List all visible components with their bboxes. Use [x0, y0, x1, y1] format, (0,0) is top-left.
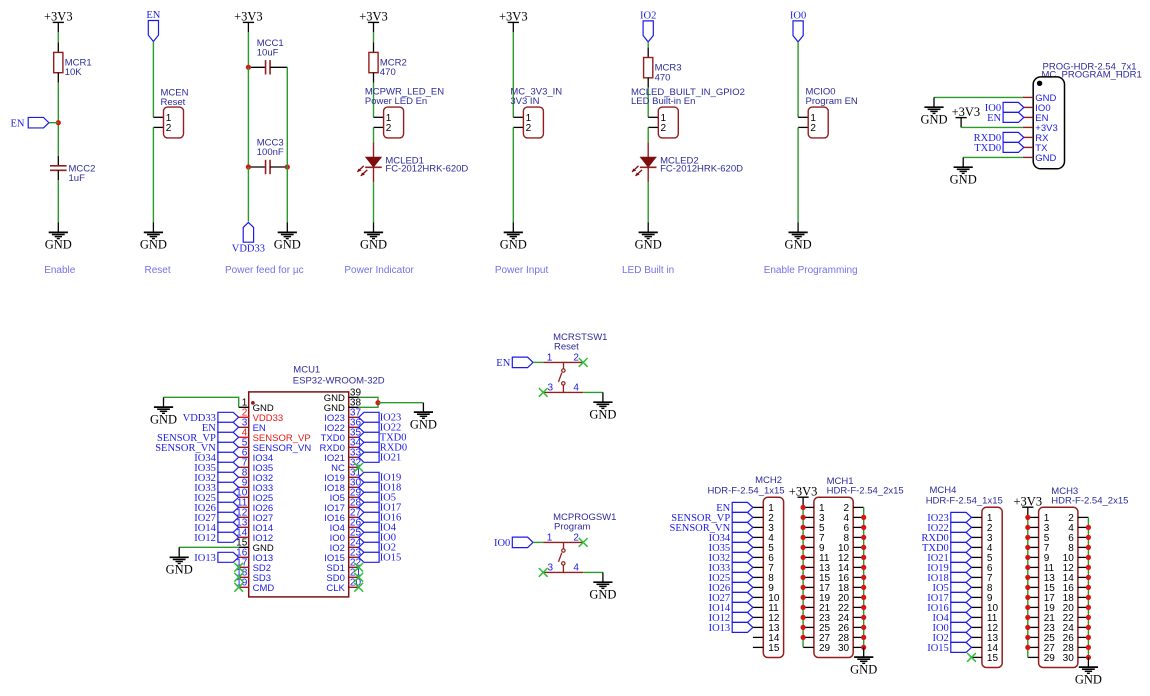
no-connect X pin 3 [539, 388, 548, 397]
svg-text:GND: GND [589, 407, 616, 421]
wire [863, 647, 865, 657]
wire [512, 222, 514, 232]
junction node MCH3 pin 12 [1086, 565, 1091, 570]
net flag IO2 (MCH4 pin 13) [932, 632, 971, 644]
wire [373, 83, 375, 118]
pin GND of MC_PROGRAM_HDR1 [1023, 93, 1057, 104]
resistor MCR1 [54, 43, 92, 83]
pins 15/16 of MCH3 [1028, 583, 1089, 594]
svg-text:Power feed for µc: Power feed for µc [225, 265, 304, 276]
svg-text:GND: GND [850, 662, 877, 676]
no-connect X pin 2 [579, 358, 588, 367]
pin EN of MC_PROGRAM_HDR1 [1023, 113, 1049, 124]
svg-text:GND: GND [920, 112, 947, 126]
wire [647, 127, 649, 142]
junction node MCH3 pin 4 [1086, 525, 1091, 530]
svg-text:2: 2 [386, 123, 392, 134]
wire [178, 547, 180, 557]
wire [512, 32, 514, 117]
junction node GND pins 38/39 [375, 400, 380, 405]
svg-text:2: 2 [526, 123, 532, 134]
connector MCLED_BUILT_IN_GPIO2 [648, 107, 678, 138]
no-connect X pin 19 [234, 583, 243, 592]
pin 14 of MCH4 [972, 643, 999, 654]
pin 1 of MCH2 [753, 503, 774, 514]
svg-text:+3V3: +3V3 [44, 10, 73, 24]
junction node MCH1 pin 5 [801, 525, 806, 530]
net flag IO25 (MCH2 pin 8) [709, 572, 753, 584]
pin 7 of MCH4 [972, 573, 993, 584]
net flag IO2 (MCU1 right) [359, 542, 396, 553]
wire [152, 127, 154, 222]
wire +3V3 bus (MCH3) [1027, 517, 1029, 657]
wire [422, 403, 424, 412]
junction node MCH1 pin 22 [861, 605, 866, 610]
wire [533, 361, 543, 363]
pin 7 of MCH2 [753, 563, 774, 574]
net flag VDD33 [232, 222, 265, 254]
ground (Enable) [45, 232, 72, 251]
pins 19/20 of MCH1 [803, 593, 864, 604]
net flag TXD0 (MCH4 pin 4) [922, 542, 972, 554]
pin 28 IO17 of MCU1 [324, 498, 361, 514]
pin 3 EN of MCU1 [239, 418, 266, 434]
svg-text:10uF: 10uF [257, 48, 279, 59]
net flag IO27 (MCH2 pin 10) [709, 592, 753, 604]
junction node MCH1 pin 23 [801, 615, 806, 620]
pin 2 VDD33 of MCU1 [239, 408, 284, 424]
net flag IO35 (MCU1 pin 7) [194, 462, 238, 474]
svg-text:HDR-F-2.54_1x15: HDR-F-2.54_1x15 [926, 495, 1003, 506]
pin 34 RXD0 of MCU1 [320, 438, 362, 454]
net flag IO14 (MCU1 pin 13) [194, 522, 238, 534]
junction node MCH1 pin 18 [861, 585, 866, 590]
pin 12 of MCH4 [972, 623, 999, 634]
svg-text:Enable Programming: Enable Programming [764, 265, 858, 276]
pin 32 NC of MCU1 [331, 458, 361, 474]
net flag IO15 (MCU1 right) [359, 552, 402, 563]
pins 7/8 of MCH1 [803, 533, 864, 544]
pin 9 of MCH2 [753, 583, 774, 594]
junction node MCH3 pin 16 [1086, 585, 1091, 590]
pin 14 IO12 of MCU1 [236, 528, 273, 544]
no-connect X pin 17 [234, 563, 243, 572]
svg-text:CLK: CLK [326, 583, 345, 594]
pins 27/28 of MCH1 [803, 633, 864, 644]
resistor MCR3 [644, 48, 682, 88]
pin 39 GND of MCU1 [324, 388, 362, 404]
net flag IO32 (MCH2 pin 6) [709, 552, 753, 564]
svg-text:IO13: IO13 [194, 553, 216, 564]
pins 23/24 of MCH1 [803, 613, 864, 624]
wire [286, 167, 288, 222]
junction node MCH3 pin 9 [1025, 555, 1030, 560]
pins 17/18 of MCH1 [803, 583, 864, 594]
svg-text:HDR-F-2.54_2x15: HDR-F-2.54_2x15 [827, 485, 904, 496]
pin 5 of MCH2 [753, 543, 774, 554]
pins 27/28 of MCH3 [1028, 643, 1089, 654]
net flag IO21 (MCU1 right) [359, 452, 402, 463]
pin 13 of MCH2 [753, 623, 780, 634]
pin IO0 of MC_PROGRAM_HDR1 [1023, 103, 1051, 114]
wire [57, 222, 59, 232]
junction node MCH1 pin 4 [861, 515, 866, 520]
net flag IO13 (MCH2 pin 13) [709, 622, 753, 634]
junction node MCH3 pin 22 [1086, 615, 1091, 620]
junction node MCH3 pin 19 [1025, 605, 1030, 610]
pin RX of MC_PROGRAM_HDR1 [1023, 133, 1049, 144]
net flag IO21 (MCH4 pin 5) [927, 552, 971, 564]
ground (MCU pin1) [150, 407, 177, 426]
svg-text:+3V3: +3V3 [952, 105, 981, 119]
ground (Power feed) [274, 232, 301, 251]
pin 37 IO23 of MCU1 [324, 408, 361, 424]
junction node MCH3 pin 13 [1025, 575, 1030, 580]
junction node MCH3 pin 6 [1086, 535, 1091, 540]
wire GND2 to header [963, 156, 1023, 158]
svg-text:Reset: Reset [554, 341, 579, 352]
pin 11 of MCH2 [753, 603, 779, 614]
net flag IO0 (header) [985, 102, 1024, 114]
power +3V3 (MCH3) [1014, 494, 1043, 517]
pins 7/8 of MCH3 [1028, 543, 1089, 554]
pin 4 of MCH4 [972, 543, 993, 554]
wire [152, 42, 154, 118]
pins 29/30 of MCH3 [1028, 653, 1089, 664]
LED MCLED2 [632, 142, 743, 182]
net flag IO19 (MCU1 right) [359, 472, 402, 483]
capacitor MCC1 [248, 38, 287, 75]
net flag EN (MCH2 pin 1) [716, 502, 753, 514]
pin 5 of MCH4 [972, 553, 993, 564]
junction node MCH3 pin 5 [1025, 535, 1030, 540]
svg-text:MCH2: MCH2 [755, 475, 782, 486]
svg-text:EN: EN [496, 358, 510, 369]
switch MCRSTSW1 Reset [543, 332, 607, 394]
net flag EN [11, 117, 49, 129]
pins 29/30 of MCH1 [803, 643, 864, 654]
svg-text:+3V3: +3V3 [499, 10, 528, 24]
net flag IO22 (MCH4 pin 2) [927, 522, 971, 534]
pins 3/4 of MCH1 [803, 513, 864, 524]
net flag VDD33 (MCU1 pin 2) [183, 412, 239, 424]
pin 3 of MCH4 [972, 533, 993, 544]
junction node MCH3 pin 20 [1086, 605, 1091, 610]
junction node MCH1 pin 10 [861, 545, 866, 550]
pin 8 of MCH2 [753, 573, 774, 584]
svg-text:30: 30 [1063, 653, 1075, 664]
junction node MCH3 pin 15 [1025, 585, 1030, 590]
svg-text:GND: GND [589, 587, 616, 601]
pin 25 IO0 of MCU1 [330, 528, 362, 544]
svg-text:Program EN: Program EN [806, 96, 858, 107]
net flag IO0 (switch) [494, 537, 533, 549]
junction node MCH3 pin 26 [1086, 635, 1091, 640]
net flag IO12 (MCH2 pin 12) [709, 612, 753, 624]
svg-text:1uF: 1uF [69, 173, 86, 184]
junction node MCH1 pin 13 [801, 565, 806, 570]
svg-text:3: 3 [548, 383, 554, 394]
net flag IO2 [640, 11, 656, 42]
net flag IO14 (MCH2 pin 11) [709, 602, 753, 614]
wire [647, 42, 649, 48]
wire to GND right [378, 402, 423, 404]
pin 33 IO21 of MCU1 [324, 448, 361, 464]
svg-text:Power LED En: Power LED En [365, 96, 427, 107]
junction node MCH3 pin 24 [1086, 625, 1091, 630]
net flag IO34 (MCH2 pin 4) [709, 532, 753, 544]
svg-text:Reset: Reset [161, 97, 186, 108]
junction node MCH1 pin 3 [801, 515, 806, 520]
connector MC_PROGRAM_HDR1 [1033, 61, 1142, 168]
svg-text:1: 1 [547, 533, 553, 544]
junction node MCH3 pin 1 [1025, 515, 1030, 520]
pins 5/6 of MCH3 [1028, 533, 1089, 544]
svg-text:GND: GND [360, 238, 387, 252]
no-connect X pin 2 [579, 538, 588, 547]
wire [286, 222, 288, 232]
wire [373, 127, 375, 142]
wire [49, 122, 58, 124]
pin 18 SD3 of MCU1 [236, 568, 271, 584]
svg-text:ESP32-WROOM-32D: ESP32-WROOM-32D [293, 376, 385, 387]
net flag RXD0 (MCH4 pin 3) [921, 532, 971, 544]
net flag IO33 (MCH2 pin 7) [709, 562, 753, 574]
LED MCLED1 [357, 142, 468, 182]
pin 22 SD1 of MCU1 [326, 558, 361, 574]
svg-text:Power Input: Power Input [495, 265, 549, 276]
pin 10 of MCH2 [753, 593, 780, 604]
pin 5 SENSOR_VN of MCU1 [239, 438, 312, 454]
net flag IO22 (MCU1 right) [359, 422, 402, 433]
svg-text:VDD33: VDD33 [232, 244, 265, 255]
net flag SENSOR_VN (MCH2 pin 3) [670, 522, 753, 534]
pin 26 IO4 of MCU1 [330, 518, 362, 534]
wire [962, 157, 964, 167]
ground (MCH1) [850, 657, 877, 676]
ground (MCU pin15) [166, 557, 193, 576]
pins 23/24 of MCH3 [1028, 623, 1089, 634]
wire GND to header [934, 96, 1023, 98]
svg-text:1: 1 [547, 353, 553, 364]
wire +3V3 to header [961, 126, 1023, 128]
svg-text:EN: EN [146, 10, 160, 21]
pin 29 IO5 of MCU1 [330, 488, 362, 504]
pin 27 IO16 of MCU1 [324, 508, 361, 524]
svg-text:+3V3: +3V3 [359, 10, 388, 24]
net flag IO4 (MCH4 pin 11) [932, 612, 971, 624]
svg-text:IO2: IO2 [640, 11, 656, 22]
net flag IO34 (MCU1 pin 6) [194, 452, 238, 464]
pin 14 of MCH2 [753, 633, 780, 644]
wire [647, 182, 649, 222]
net flag EN (Reset) [146, 10, 160, 41]
junction node MCH3 pin 7 [1025, 545, 1030, 550]
pins 13/14 of MCH3 [1028, 573, 1089, 584]
pin GND of MC_PROGRAM_HDR1 [1023, 153, 1057, 164]
pins 1/2 of MCH3 [1028, 513, 1089, 524]
pin 16 IO13 of MCU1 [236, 548, 273, 564]
junction node MCH1 pin 16 [861, 575, 866, 580]
net flag IO0 (MCU1 right) [359, 532, 396, 543]
pins 25/26 of MCH3 [1028, 633, 1089, 644]
power +3V3 (header) [952, 105, 981, 128]
net flag IO16 (MCH4 pin 10) [927, 602, 971, 614]
junction node MCH1 pin 30 [861, 645, 866, 650]
wire [57, 83, 59, 156]
pin 9 of MCH4 [972, 593, 993, 604]
junction node MCH1 pin 26 [861, 625, 866, 630]
capacitor MCC2 [50, 156, 95, 184]
junction node MCH3 pin 30 [1086, 655, 1091, 660]
pin 7 IO35 of MCU1 [239, 458, 274, 474]
junction node MCH1 pin 19 [801, 595, 806, 600]
junction node MCH3 pin 21 [1025, 615, 1030, 620]
connector MCH2 [708, 475, 785, 658]
wire MCU pin1 to GND [164, 397, 239, 407]
svg-text:2: 2 [166, 123, 172, 134]
pin 23 IO15 of MCU1 [324, 548, 361, 564]
ground (MCPROGSW1) [589, 582, 616, 601]
pin 12 of MCH2 [753, 613, 780, 624]
resistor MCR2 [369, 43, 407, 83]
wire [512, 127, 514, 222]
svg-text:EN: EN [11, 118, 25, 129]
pins 17/18 of MCH3 [1028, 593, 1089, 604]
wire [647, 222, 649, 232]
junction node MCH3 pin 3 [1025, 525, 1030, 530]
pin 11 of MCH4 [972, 613, 998, 624]
svg-text:MCH4: MCH4 [930, 485, 957, 496]
net flag SENSOR_VN (MCU1 pin 5) [155, 442, 238, 454]
ground (Power Input) [500, 232, 527, 251]
svg-text:FC-2012HRK-620D: FC-2012HRK-620D [385, 164, 468, 175]
no-connect X (MCH4 pin 15) [967, 653, 976, 662]
wire [57, 180, 59, 222]
svg-text:GND: GND [140, 238, 167, 252]
svg-text:Power Indicator: Power Indicator [344, 265, 414, 276]
pin 3 of MCH2 [753, 523, 774, 534]
junction node MCH1 pin 21 [801, 605, 806, 610]
svg-text:30: 30 [838, 643, 850, 654]
wire GND bus (MCH3) [1087, 517, 1089, 657]
svg-text:GND: GND [1035, 153, 1056, 164]
net flag IO26 (MCH2 pin 9) [709, 582, 753, 594]
pin 10 IO25 of MCU1 [236, 488, 273, 504]
pins 11/12 of MCH1 [803, 553, 864, 564]
ground (MCU right) [410, 412, 437, 431]
wire [373, 182, 375, 222]
pin 1 GND of MCU1 [239, 398, 274, 414]
wire MCU pin15 to GND [179, 546, 239, 548]
connector MC_3V3_IN [513, 107, 543, 138]
ground (MCH3) [1075, 667, 1102, 686]
no-connect X pin 18 [234, 573, 243, 582]
pin 15 GND of MCU1 [236, 538, 274, 554]
net flag RXD0 (MCU1 right) [359, 442, 407, 453]
junction node EN / MCR1 / MCC2 [56, 120, 61, 125]
svg-text:2: 2 [661, 123, 667, 134]
junction node MCH3 pin 8 [1086, 545, 1091, 550]
pin 2 of MCH4 [972, 523, 993, 534]
power +3V3 (Power feed) [234, 10, 263, 33]
net flag IO4 (MCU1 right) [359, 522, 397, 533]
pin 20 CLK of MCU1 [326, 578, 361, 594]
power +3V3 (Enable) [44, 10, 73, 33]
svg-text:IO13: IO13 [709, 623, 731, 634]
wire [163, 397, 165, 407]
svg-text:FC-2012HRK-620D: FC-2012HRK-620D [660, 164, 743, 175]
pins 13/14 of MCH1 [803, 563, 864, 574]
net flag EN (MCU1 pin 3) [202, 422, 239, 434]
pin 31 IO19 of MCU1 [324, 468, 361, 484]
pin 36 IO22 of MCU1 [324, 418, 361, 434]
pins 19/20 of MCH3 [1028, 603, 1089, 614]
pins 25/26 of MCH1 [803, 623, 864, 634]
net flag IO13 (MCU1 pin 16) [194, 552, 238, 564]
junction node MCC3 right [285, 164, 290, 169]
net flag TXD0 (header) [974, 142, 1024, 154]
no-connect X pin 22 [354, 563, 363, 572]
net flag IO32 (MCU1 pin 8) [194, 472, 238, 484]
wire [152, 222, 154, 232]
wire MCU pin39 [359, 397, 378, 402]
net flag TXD0 (MCU1 right) [359, 432, 407, 443]
junction node MCH3 pin 10 [1086, 555, 1091, 560]
svg-text:GND: GND [45, 238, 72, 252]
ground (MCRSTSW1) [589, 402, 616, 421]
wire [1087, 657, 1089, 667]
svg-text:+3V3: +3V3 [234, 10, 263, 24]
pin 30 IO18 of MCU1 [324, 478, 361, 494]
pin 15 of MCH2 [753, 643, 780, 654]
svg-text:HDR-F-2.54_1x15: HDR-F-2.54_1x15 [708, 485, 785, 496]
svg-text:MCU1: MCU1 [293, 365, 320, 376]
junction node MCH3 pin 14 [1086, 575, 1091, 580]
net flag SENSOR_VP (MCU1 pin 4) [157, 432, 239, 444]
svg-text:LED Built-in En: LED Built-in En [631, 96, 695, 107]
ground (Reset) [140, 232, 167, 251]
svg-text:GND: GND [500, 238, 527, 252]
wire [373, 222, 375, 232]
junction node MCH1 pin 28 [861, 635, 866, 640]
wire GND bus (MCH1) [863, 507, 865, 647]
svg-text:GND: GND [410, 417, 437, 431]
connector MCH4 [926, 485, 1003, 668]
svg-text:29: 29 [1044, 653, 1056, 664]
junction node MCH1 pin 24 [861, 615, 866, 620]
svg-text:Reset: Reset [145, 265, 171, 276]
ground (header bottom) [950, 167, 977, 186]
junction node MCH1 pin 11 [801, 555, 806, 560]
svg-text:GND: GND [274, 238, 301, 252]
net flag IO12 (MCU1 pin 14) [194, 532, 238, 544]
connector MCH1 [814, 476, 904, 658]
svg-text:IO15: IO15 [380, 553, 402, 564]
ground (LED Built in) [635, 232, 662, 251]
pin +3V3 of MC_PROGRAM_HDR1 [1023, 123, 1058, 134]
pin 35 TXD0 of MCU1 [321, 428, 362, 444]
wire [647, 88, 649, 118]
net flag IO18 (MCH4 pin 7) [927, 572, 971, 584]
junction node MCH3 pin 23 [1025, 625, 1030, 630]
svg-text:15: 15 [768, 643, 780, 654]
pin TX of MC_PROGRAM_HDR1 [1023, 143, 1048, 154]
svg-text:3V3 IN: 3V3 IN [510, 96, 539, 107]
wire [247, 167, 249, 222]
svg-text:GND: GND [635, 238, 662, 252]
net flag IO35 (MCH2 pin 5) [709, 542, 753, 554]
